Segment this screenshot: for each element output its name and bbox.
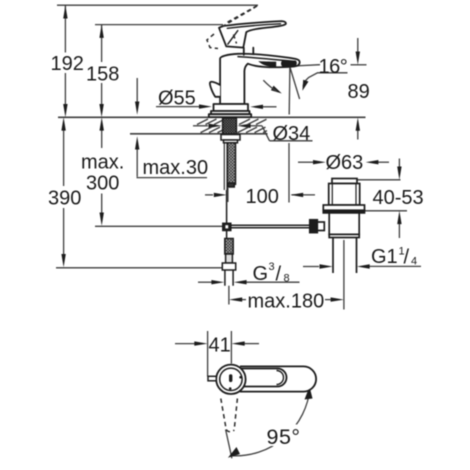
svg-text:G: G bbox=[253, 263, 269, 285]
svg-text:max.180: max.180 bbox=[248, 291, 325, 313]
svg-text:89: 89 bbox=[348, 81, 370, 103]
svg-text:Ø34: Ø34 bbox=[273, 123, 311, 145]
svg-text:300: 300 bbox=[86, 173, 119, 195]
svg-text:16°: 16° bbox=[319, 56, 348, 78]
svg-text:Ø63: Ø63 bbox=[326, 152, 364, 174]
svg-text:4: 4 bbox=[411, 256, 417, 268]
svg-text:/: / bbox=[276, 264, 282, 286]
svg-text:3: 3 bbox=[269, 261, 275, 273]
svg-text:100: 100 bbox=[246, 186, 279, 208]
svg-text:Ø55: Ø55 bbox=[158, 88, 196, 110]
svg-text:95°: 95° bbox=[267, 425, 301, 449]
svg-text:G1: G1 bbox=[371, 246, 398, 268]
svg-text:41: 41 bbox=[209, 335, 231, 357]
svg-text:max.: max. bbox=[81, 152, 124, 174]
svg-text:/: / bbox=[404, 247, 410, 269]
svg-text:158: 158 bbox=[86, 64, 119, 86]
svg-text:192: 192 bbox=[51, 53, 84, 75]
svg-text:max.30: max.30 bbox=[143, 157, 209, 179]
svg-text:390: 390 bbox=[48, 188, 81, 210]
svg-text:8: 8 bbox=[284, 273, 290, 285]
svg-text:40-53: 40-53 bbox=[373, 187, 424, 209]
